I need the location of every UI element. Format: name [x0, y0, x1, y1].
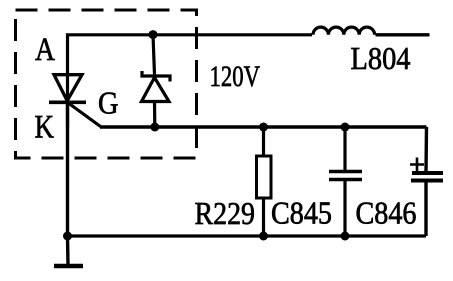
- svg-text:120V: 120V: [210, 60, 261, 93]
- polarity plus of C846: [410, 158, 424, 172]
- svg-text:A: A: [35, 32, 55, 68]
- svg-text:K: K: [35, 109, 55, 145]
- label A (anode): [35, 32, 55, 68]
- resistor R229: [257, 127, 272, 236]
- inductor L804: [313, 27, 375, 35]
- label 120V: [210, 60, 261, 93]
- svg-text:C845: C845: [271, 195, 332, 231]
- svg-text:C846: C846: [356, 195, 417, 231]
- node: R229 bottom junction: [259, 232, 268, 241]
- label C845: [271, 195, 332, 231]
- svg-text:L804: L804: [351, 40, 411, 76]
- wire: cathode down to ground: [66, 102, 70, 266]
- wire: top net from anode corner to right edge: [68, 35, 430, 127]
- node: R229 top junction: [259, 123, 268, 132]
- dashed module box: [16, 10, 197, 158]
- label L804: [351, 40, 411, 76]
- label R229: [195, 195, 256, 231]
- zener diode D1: [142, 35, 171, 127]
- label G (gate): [98, 85, 119, 121]
- thyristor Q1 (SCR): [49, 75, 101, 127]
- node: zener bottom junction on gate net: [150, 123, 159, 132]
- capacitor C845: [329, 127, 362, 236]
- node: C845 top junction: [341, 123, 350, 132]
- wire: bottom net: [68, 234, 427, 237]
- node: zener top junction: [149, 30, 158, 39]
- ground: [54, 264, 83, 269]
- svg-text:R229: R229: [195, 195, 256, 231]
- label K (cathode): [35, 109, 55, 145]
- capacitor C846 (electrolytic): [411, 127, 443, 236]
- node: cathode/bottom-net junction: [63, 232, 72, 241]
- node: C845 bottom junction: [341, 232, 350, 241]
- wire: gate/output net horizontal: [100, 125, 427, 128]
- svg-text:G: G: [98, 85, 119, 121]
- label C846: [356, 195, 417, 231]
